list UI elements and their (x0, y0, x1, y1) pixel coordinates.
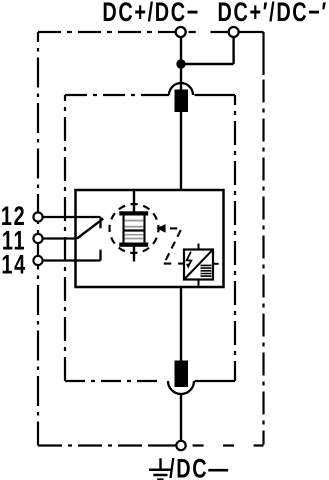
technology symbol: bottom stub (198, 280, 200, 286)
technology symbol: electrode hatch lines (201, 265, 212, 276)
wire from terminal 11 to pivot (43, 237, 77, 239)
spark gap stack: bottom electrode bar (119, 243, 148, 247)
outer device border: top edge left of terminal X1 (chain line) (38, 31, 160, 33)
changeover contact arm (77, 219, 103, 239)
pointer arrowhead at circle (156, 224, 165, 233)
inner module border: top edge right of upper spark gap (solid) (195, 94, 236, 96)
upper spark gap F1: arc electrode (169, 83, 193, 95)
technology symbol: right stub (213, 263, 219, 265)
terminal X2 DC+'/DC-' (229, 27, 239, 37)
outer device border: right edge (solid then chain) (262, 32, 264, 75)
svg-text:DC+/DC−: DC+/DC− (102, 0, 200, 26)
terminal 14 (33, 256, 42, 265)
outer device border: left edge (chain, carries terminals 12/11/14) (37, 32, 39, 446)
technology symbol box (spark gap + arrester) (184, 250, 213, 280)
outer device border: bottom edge right of ground terminal (dashed) (193, 444, 264, 446)
wire from lower spark gap to ground terminal (180, 394, 182, 442)
inner module border: top edge left of upper spark gap (chain) (65, 94, 150, 96)
upper spark gap F1: body (filled rectangle) (175, 90, 189, 113)
wire from terminal 14 to contact (43, 259, 101, 261)
terminal 11 (33, 234, 42, 243)
spark gap stack: left side wall (122, 216, 124, 243)
wire from terminal X1 down to junction and upper spark gap (180, 37, 182, 90)
technology symbol: lightning bolt (187, 252, 192, 266)
technology symbol: top stub (198, 244, 200, 250)
contact 12 seat (down hook) (99, 217, 101, 228)
svg-text:/DC—: /DC— (169, 454, 230, 480)
lower spark gap F2: body (filled rectangle) (175, 361, 189, 388)
outer device border: top edge right of terminal X2 (solid) (239, 31, 264, 33)
wire from upper spark gap to module box (180, 112, 182, 190)
wire from terminal X2 down (232, 37, 234, 64)
ground terminal (176, 441, 185, 450)
technology symbol: diagonal divider (185, 251, 212, 279)
ground symbol (earth) (159, 458, 161, 468)
wire: stack top lead (133, 190, 135, 212)
svg-text:14: 14 (1, 250, 26, 279)
inner module border: left edge (chain) (64, 95, 66, 381)
contact 14 seat (up hook) (99, 250, 101, 261)
inner module border: bottom edge left of lower spark gap (chain) (65, 380, 163, 382)
dashed leader line from technology symbol to circle (170, 227, 177, 229)
spark gap stack: right side wall (143, 216, 145, 243)
terminal 12 (33, 212, 42, 221)
inner module border: bottom edge right of lower spark gap (solid) (195, 380, 236, 382)
module box (solid rectangle) (76, 190, 224, 287)
wire from terminal X2 branch to junction (181, 63, 234, 65)
outer device border: top edge between terminals (189, 31, 229, 33)
wire: stack bottom lead (133, 247, 135, 262)
wire from module box down to lower spark gap (180, 287, 182, 362)
junction node (solder dot) (176, 59, 185, 68)
outer device border: bottom edge left of ground terminal (chain) (38, 444, 150, 446)
spark gap stack: top electrode bar (119, 211, 148, 215)
svg-text:DC+′/DC−′: DC+′/DC−′ (218, 0, 328, 26)
wire from terminal 12 to contact (43, 216, 101, 218)
lower spark gap F2: arc electrode (168, 381, 194, 394)
terminal X1 DC+/DC- (176, 27, 186, 37)
dashed highlight circle around stack (110, 204, 159, 253)
inner module border: right edge (chain) (234, 95, 236, 381)
spark gap stack: inner plates (125, 221, 144, 227)
